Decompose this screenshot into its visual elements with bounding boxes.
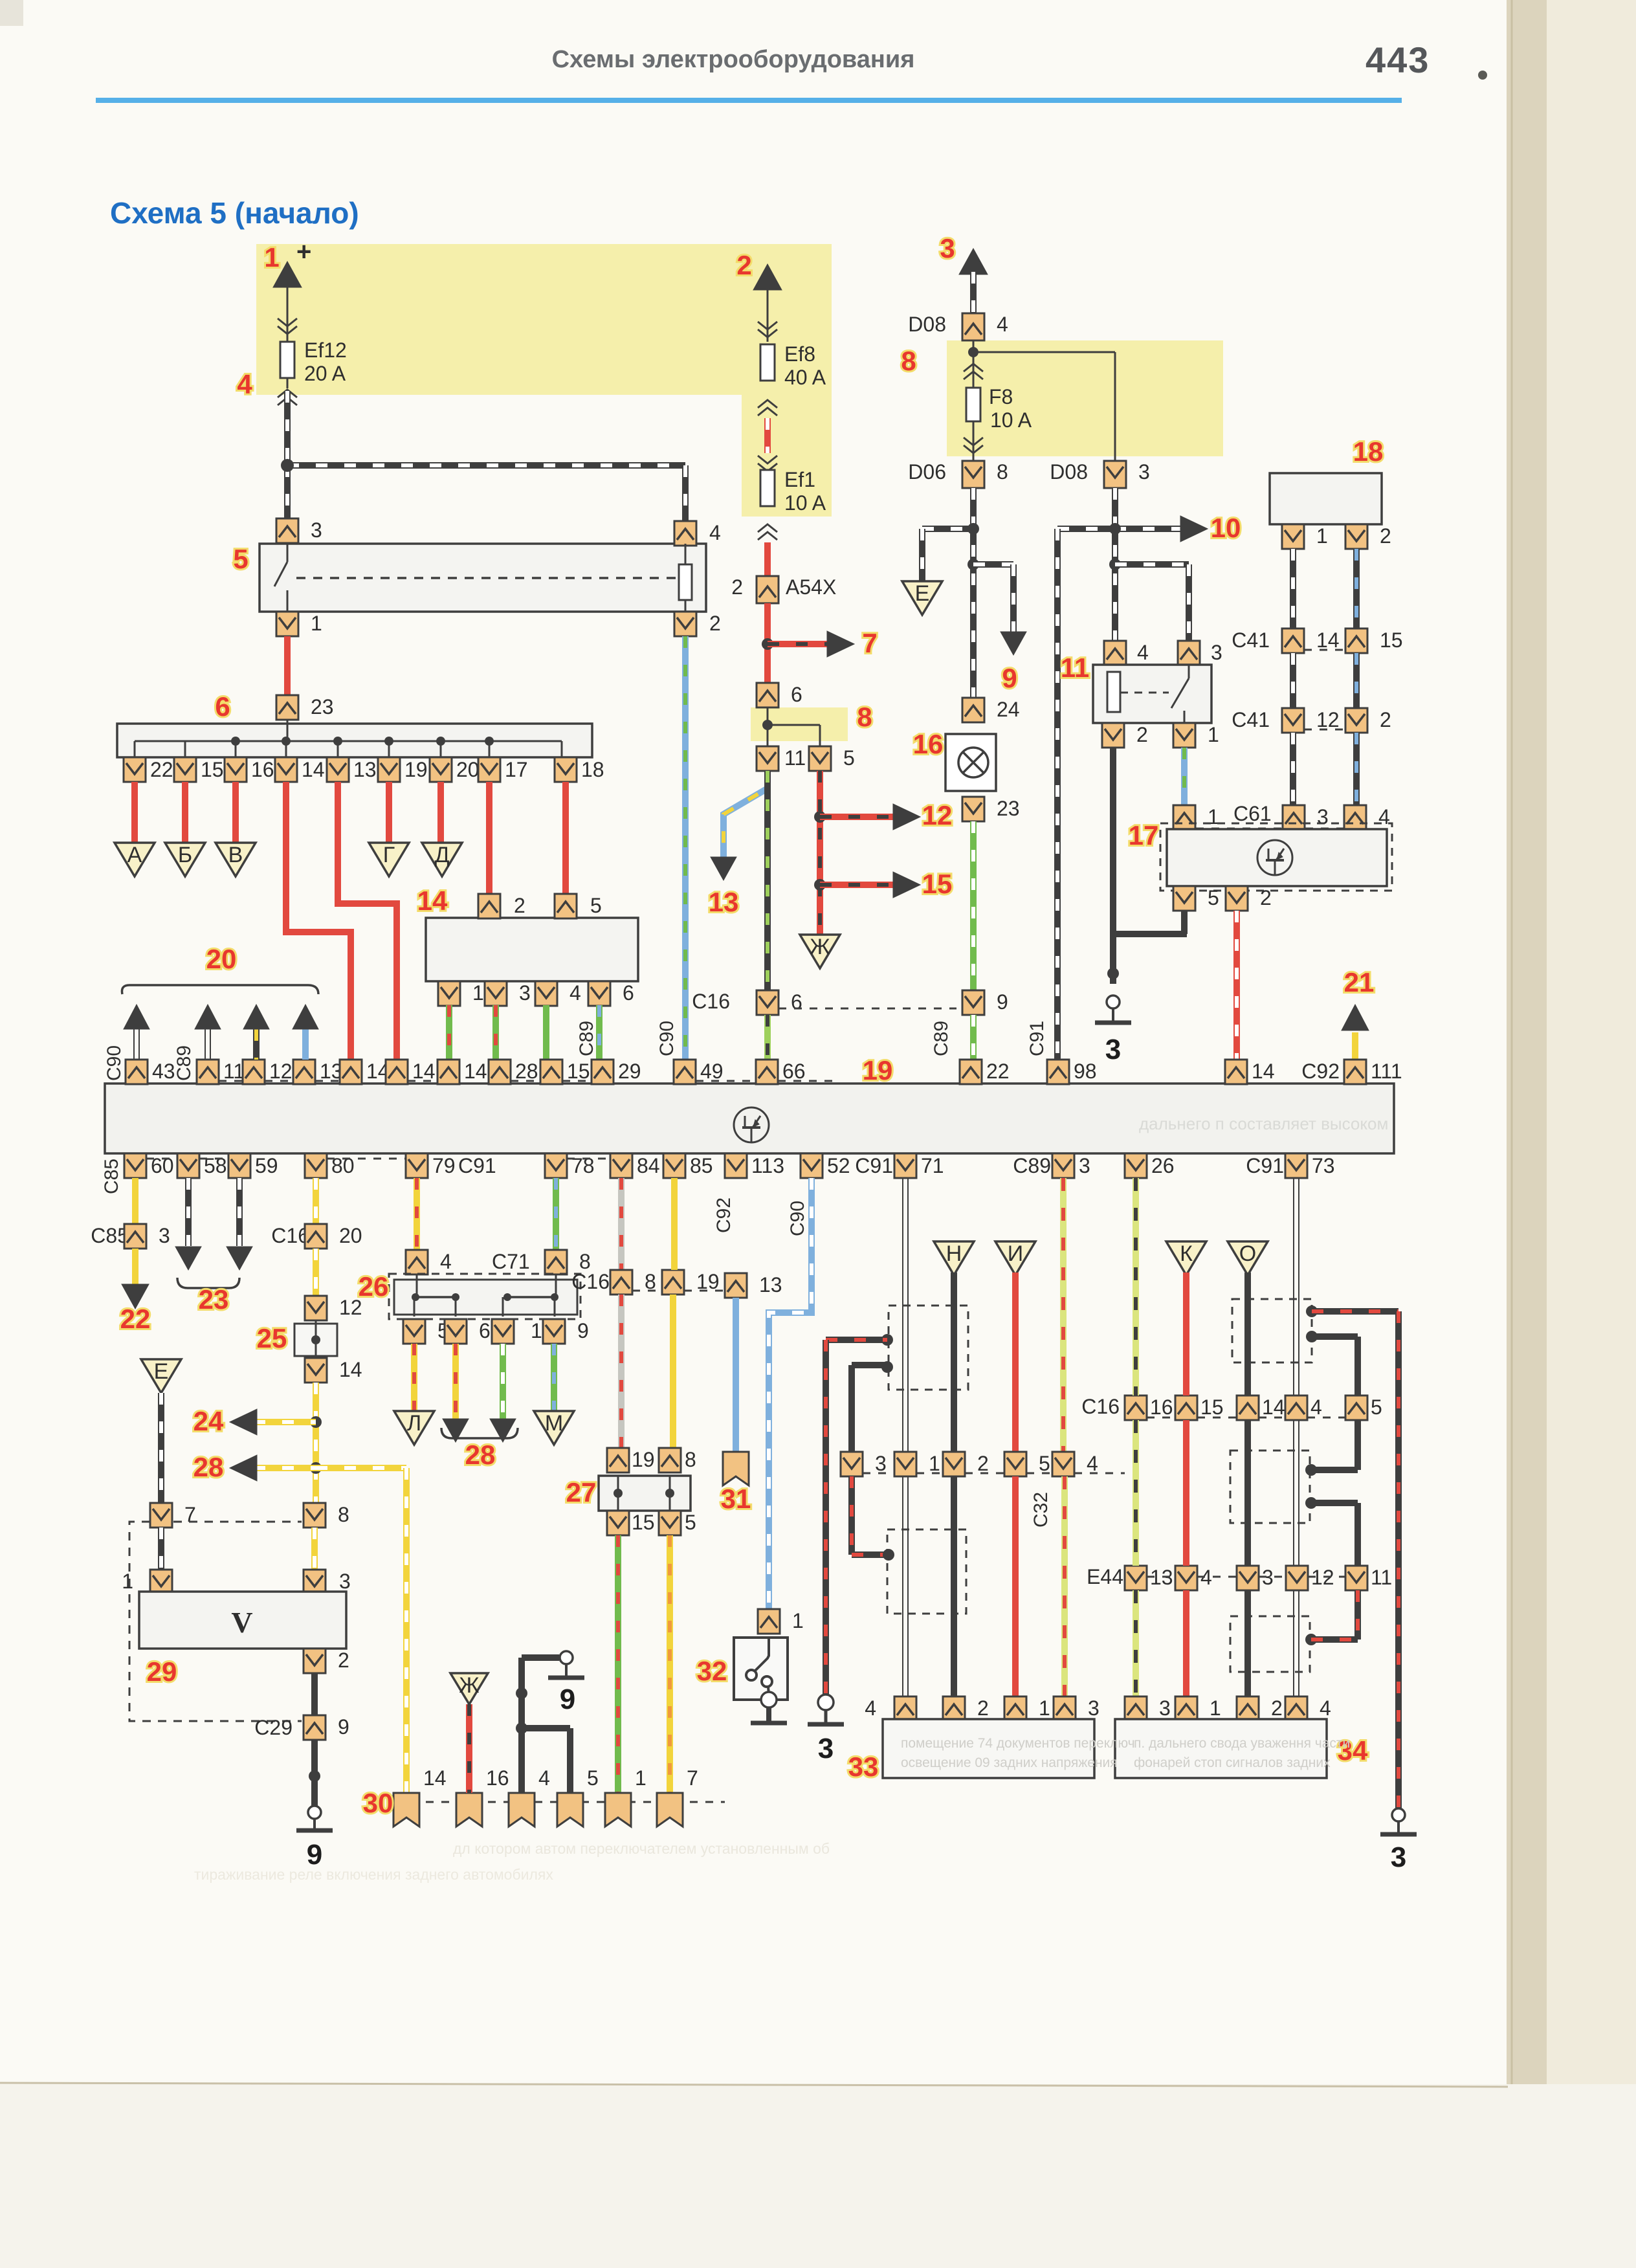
svg-text:1: 1	[635, 1766, 647, 1790]
svg-text:12: 12	[922, 800, 953, 830]
svg-text:4: 4	[538, 1766, 550, 1790]
svg-text:7: 7	[687, 1766, 698, 1790]
svg-text:4: 4	[865, 1696, 876, 1720]
svg-text:10 A: 10 A	[784, 491, 826, 515]
svg-text:15: 15	[922, 869, 953, 899]
svg-text:60: 60	[151, 1154, 174, 1177]
svg-text:7: 7	[184, 1503, 196, 1526]
svg-text:Схема 5 (начало): Схема 5 (начало)	[110, 196, 359, 230]
svg-text:И: И	[1008, 1241, 1023, 1266]
svg-text:C85: C85	[101, 1159, 122, 1194]
svg-text:13: 13	[353, 758, 377, 781]
svg-text:18: 18	[1353, 436, 1384, 467]
svg-text:9: 9	[560, 1684, 575, 1715]
svg-text:33: 33	[848, 1751, 879, 1782]
svg-text:78: 78	[571, 1154, 595, 1177]
svg-text:4: 4	[237, 369, 252, 399]
svg-text:Г: Г	[383, 843, 395, 867]
svg-text:помещение 74 документов перекл: помещение 74 документов переключ	[901, 1736, 1135, 1751]
svg-text:3: 3	[1391, 1841, 1406, 1873]
svg-text:29: 29	[618, 1060, 641, 1083]
svg-text:27: 27	[566, 1477, 597, 1507]
svg-text:6: 6	[215, 691, 230, 722]
svg-text:4: 4	[1310, 1395, 1322, 1419]
svg-text:49: 49	[700, 1060, 724, 1083]
svg-text:2: 2	[1271, 1696, 1283, 1720]
svg-text:5: 5	[1371, 1395, 1382, 1419]
svg-text:16: 16	[1150, 1395, 1173, 1419]
svg-text:4: 4	[1087, 1452, 1098, 1475]
svg-text:19: 19	[632, 1448, 655, 1471]
svg-text:К: К	[1180, 1241, 1193, 1266]
svg-text:C85: C85	[91, 1224, 129, 1247]
svg-text:п. дальнего свода уваження час: п. дальнего свода уваження части	[1134, 1736, 1350, 1751]
svg-text:20: 20	[456, 758, 480, 781]
svg-text:4: 4	[1137, 641, 1149, 664]
svg-text:5: 5	[843, 746, 855, 770]
svg-text:Е: Е	[915, 581, 930, 606]
svg-text:9: 9	[1002, 663, 1017, 693]
svg-text:59: 59	[255, 1154, 278, 1177]
svg-text:22: 22	[986, 1060, 1010, 1083]
svg-text:15: 15	[567, 1060, 590, 1083]
svg-text:21: 21	[1344, 967, 1375, 997]
svg-text:Ж: Ж	[459, 1673, 479, 1698]
svg-text:10 A: 10 A	[990, 408, 1032, 432]
svg-text:8: 8	[685, 1448, 696, 1471]
svg-text:5: 5	[590, 894, 602, 917]
svg-text:113: 113	[751, 1154, 784, 1177]
svg-text:C71: C71	[492, 1250, 530, 1273]
svg-text:Д: Д	[434, 843, 449, 867]
svg-text:14: 14	[417, 885, 448, 916]
svg-text:11: 11	[1061, 652, 1089, 683]
svg-text:2: 2	[514, 894, 525, 917]
svg-text:1: 1	[1210, 1696, 1221, 1720]
svg-text:17: 17	[505, 758, 528, 781]
svg-text:М: М	[545, 1411, 563, 1436]
svg-text:26: 26	[359, 1271, 389, 1302]
svg-text:C91: C91	[458, 1154, 496, 1177]
svg-text:66: 66	[782, 1060, 806, 1083]
svg-text:16: 16	[486, 1766, 509, 1790]
svg-text:В: В	[228, 843, 243, 867]
svg-text:19: 19	[404, 758, 428, 781]
svg-text:2: 2	[977, 1696, 989, 1720]
svg-text:13: 13	[709, 887, 739, 917]
svg-text:Б: Б	[178, 843, 192, 867]
svg-text:F8: F8	[989, 385, 1013, 408]
svg-text:1: 1	[122, 1570, 133, 1593]
svg-text:2: 2	[731, 575, 743, 599]
svg-text:1: 1	[929, 1452, 940, 1475]
svg-text:C41: C41	[1232, 628, 1270, 652]
svg-text:12: 12	[1316, 708, 1340, 731]
svg-text:C16: C16	[271, 1224, 309, 1247]
svg-text:13: 13	[759, 1273, 782, 1296]
svg-text:+: +	[296, 238, 311, 266]
svg-text:Ef8: Ef8	[784, 342, 815, 366]
svg-text:дл котором автом переключателе: дл котором автом переключателем установл…	[453, 1840, 830, 1857]
svg-text:11: 11	[223, 1060, 245, 1083]
svg-text:24: 24	[193, 1406, 224, 1436]
svg-text:23: 23	[997, 797, 1020, 820]
svg-text:14: 14	[339, 1358, 362, 1381]
svg-text:C89: C89	[1013, 1154, 1051, 1177]
svg-text:15: 15	[1200, 1395, 1224, 1419]
svg-text:Л: Л	[407, 1411, 421, 1436]
svg-text:D08: D08	[908, 313, 946, 336]
svg-text:29: 29	[147, 1656, 177, 1687]
svg-text:1: 1	[311, 612, 322, 635]
svg-text:14: 14	[412, 1060, 436, 1083]
svg-text:3: 3	[159, 1224, 170, 1247]
svg-text:1: 1	[792, 1609, 804, 1632]
svg-text:5: 5	[587, 1766, 599, 1790]
svg-text:28: 28	[515, 1060, 538, 1083]
svg-text:1: 1	[1039, 1696, 1050, 1720]
svg-text:C89: C89	[173, 1045, 195, 1081]
svg-text:C41: C41	[1232, 708, 1270, 731]
svg-text:5: 5	[1039, 1452, 1050, 1475]
svg-text:C16: C16	[1081, 1395, 1120, 1418]
svg-text:V: V	[231, 1606, 252, 1639]
svg-text:25: 25	[257, 1323, 287, 1353]
svg-text:8: 8	[857, 702, 872, 732]
svg-text:111: 111	[1371, 1060, 1402, 1083]
svg-text:Ж: Ж	[810, 935, 830, 959]
svg-text:16: 16	[251, 758, 274, 781]
svg-text:52: 52	[827, 1154, 850, 1177]
svg-text:освещение 09 задних напряжения: освещение 09 задних напряжения	[901, 1755, 1118, 1770]
svg-text:2: 2	[338, 1649, 349, 1672]
svg-text:80: 80	[331, 1154, 355, 1177]
svg-text:1: 1	[1208, 805, 1219, 828]
svg-text:26: 26	[1151, 1154, 1175, 1177]
svg-text:A54X: A54X	[786, 575, 836, 599]
svg-text:3: 3	[339, 1570, 351, 1593]
svg-text:11: 11	[1371, 1566, 1392, 1589]
svg-text:C16: C16	[692, 990, 730, 1013]
svg-text:3: 3	[519, 981, 531, 1005]
svg-text:C92: C92	[1301, 1060, 1340, 1083]
svg-text:О: О	[1239, 1241, 1256, 1266]
svg-text:Ef12: Ef12	[304, 339, 347, 362]
svg-text:19: 19	[863, 1055, 893, 1085]
svg-text:9: 9	[997, 990, 1008, 1014]
svg-text:Е: Е	[154, 1359, 169, 1384]
svg-text:2: 2	[709, 612, 721, 635]
svg-text:11: 11	[784, 746, 806, 770]
svg-text:C91: C91	[855, 1154, 893, 1177]
svg-text:3: 3	[875, 1452, 887, 1475]
svg-text:5: 5	[685, 1511, 696, 1534]
svg-text:6: 6	[623, 981, 634, 1005]
svg-text:2: 2	[1260, 886, 1272, 909]
svg-text:C90: C90	[787, 1201, 808, 1236]
svg-text:98: 98	[1074, 1060, 1097, 1083]
svg-text:Схемы электрооборудования: Схемы электрооборудования	[552, 46, 915, 73]
svg-text:9: 9	[338, 1715, 349, 1739]
svg-text:22: 22	[120, 1304, 151, 1334]
svg-text:22: 22	[150, 758, 173, 781]
svg-text:14: 14	[1262, 1395, 1285, 1419]
svg-text:C90: C90	[656, 1021, 678, 1056]
svg-text:1: 1	[1208, 723, 1219, 746]
svg-text:23: 23	[199, 1284, 229, 1315]
svg-text:А: А	[127, 843, 142, 867]
svg-text:43: 43	[152, 1060, 175, 1083]
svg-text:2: 2	[1136, 723, 1148, 746]
svg-text:443: 443	[1365, 39, 1430, 80]
svg-text:тираживание реле включения зад: тираживание реле включения заднего автом…	[194, 1866, 553, 1883]
svg-text:85: 85	[690, 1154, 713, 1177]
svg-text:8: 8	[338, 1503, 349, 1526]
svg-text:6: 6	[791, 683, 802, 706]
svg-text:40 A: 40 A	[784, 366, 826, 389]
svg-text:31: 31	[721, 1484, 751, 1514]
svg-text:16: 16	[913, 729, 944, 759]
svg-text:дальнего п составляет высоком: дальнего п составляет высоком	[1139, 1114, 1388, 1133]
svg-text:Н: Н	[946, 1241, 962, 1266]
svg-text:9: 9	[577, 1319, 589, 1342]
svg-text:6: 6	[791, 990, 802, 1014]
svg-text:3: 3	[1105, 1034, 1121, 1065]
svg-text:C16: C16	[571, 1270, 610, 1293]
svg-text:58: 58	[204, 1154, 227, 1177]
svg-text:23: 23	[311, 695, 334, 718]
svg-text:D06: D06	[908, 460, 946, 484]
svg-text:84: 84	[637, 1154, 660, 1177]
svg-text:14: 14	[464, 1060, 487, 1083]
svg-text:28: 28	[193, 1452, 224, 1482]
svg-text:24: 24	[997, 698, 1020, 721]
svg-text:C89: C89	[576, 1021, 597, 1056]
svg-text:10: 10	[1211, 513, 1241, 543]
svg-text:73: 73	[1312, 1154, 1335, 1177]
svg-text:C92: C92	[713, 1197, 735, 1233]
svg-text:4: 4	[1320, 1696, 1331, 1720]
svg-text:3: 3	[818, 1733, 834, 1764]
svg-text:12: 12	[269, 1060, 293, 1083]
svg-text:15: 15	[1380, 628, 1403, 652]
svg-text:C91: C91	[1026, 1021, 1048, 1056]
svg-text:17: 17	[1129, 820, 1159, 850]
svg-text:3: 3	[1317, 805, 1329, 828]
svg-text:3: 3	[1159, 1696, 1171, 1720]
svg-text:8: 8	[997, 460, 1008, 484]
svg-text:фонарей стоп сигналов задних: фонарей стоп сигналов задних	[1134, 1755, 1331, 1770]
svg-text:3: 3	[1088, 1696, 1100, 1720]
svg-text:4: 4	[569, 981, 581, 1005]
svg-text:4: 4	[1378, 805, 1390, 828]
svg-text:3: 3	[1138, 460, 1150, 484]
svg-text:7: 7	[862, 628, 877, 658]
svg-text:18: 18	[581, 758, 604, 781]
svg-text:14: 14	[1316, 628, 1340, 652]
svg-text:4: 4	[440, 1250, 452, 1273]
svg-text:5: 5	[233, 544, 248, 574]
svg-text:2: 2	[736, 250, 751, 280]
svg-text:2: 2	[1380, 524, 1391, 548]
svg-text:3: 3	[1079, 1154, 1090, 1177]
svg-text:30: 30	[363, 1788, 393, 1818]
svg-text:C90: C90	[104, 1045, 125, 1081]
svg-text:6: 6	[479, 1319, 491, 1342]
svg-text:79: 79	[432, 1154, 456, 1177]
svg-text:14: 14	[302, 758, 325, 781]
svg-text:2: 2	[977, 1452, 989, 1475]
svg-text:15: 15	[201, 758, 224, 781]
svg-text:Ef1: Ef1	[784, 468, 815, 491]
svg-text:C89: C89	[931, 1021, 952, 1056]
svg-text:20: 20	[206, 944, 237, 974]
svg-text:71: 71	[921, 1154, 944, 1177]
svg-text:1: 1	[472, 981, 484, 1005]
svg-text:15: 15	[632, 1511, 655, 1534]
svg-text:2: 2	[1380, 708, 1391, 731]
svg-text:3: 3	[940, 233, 955, 263]
svg-text:1: 1	[264, 242, 279, 272]
svg-text:C29: C29	[254, 1716, 293, 1739]
svg-text:32: 32	[697, 1656, 727, 1686]
svg-text:4: 4	[997, 313, 1008, 336]
svg-text:3: 3	[1211, 641, 1222, 664]
svg-text:14: 14	[1252, 1060, 1275, 1083]
svg-text:C61: C61	[1233, 802, 1272, 825]
svg-text:1: 1	[1316, 524, 1328, 548]
svg-text:E44: E44	[1087, 1565, 1123, 1588]
svg-text:3: 3	[311, 518, 322, 542]
svg-text:20: 20	[339, 1224, 362, 1247]
svg-text:20 A: 20 A	[304, 362, 346, 385]
svg-text:8: 8	[901, 346, 916, 376]
svg-text:5: 5	[1208, 886, 1219, 909]
svg-text:4: 4	[709, 521, 721, 544]
svg-text:D08: D08	[1050, 460, 1088, 484]
svg-text:C32: C32	[1030, 1492, 1052, 1528]
svg-text:28: 28	[465, 1440, 496, 1470]
svg-text:C91: C91	[1246, 1154, 1284, 1177]
svg-text:14: 14	[423, 1766, 447, 1790]
